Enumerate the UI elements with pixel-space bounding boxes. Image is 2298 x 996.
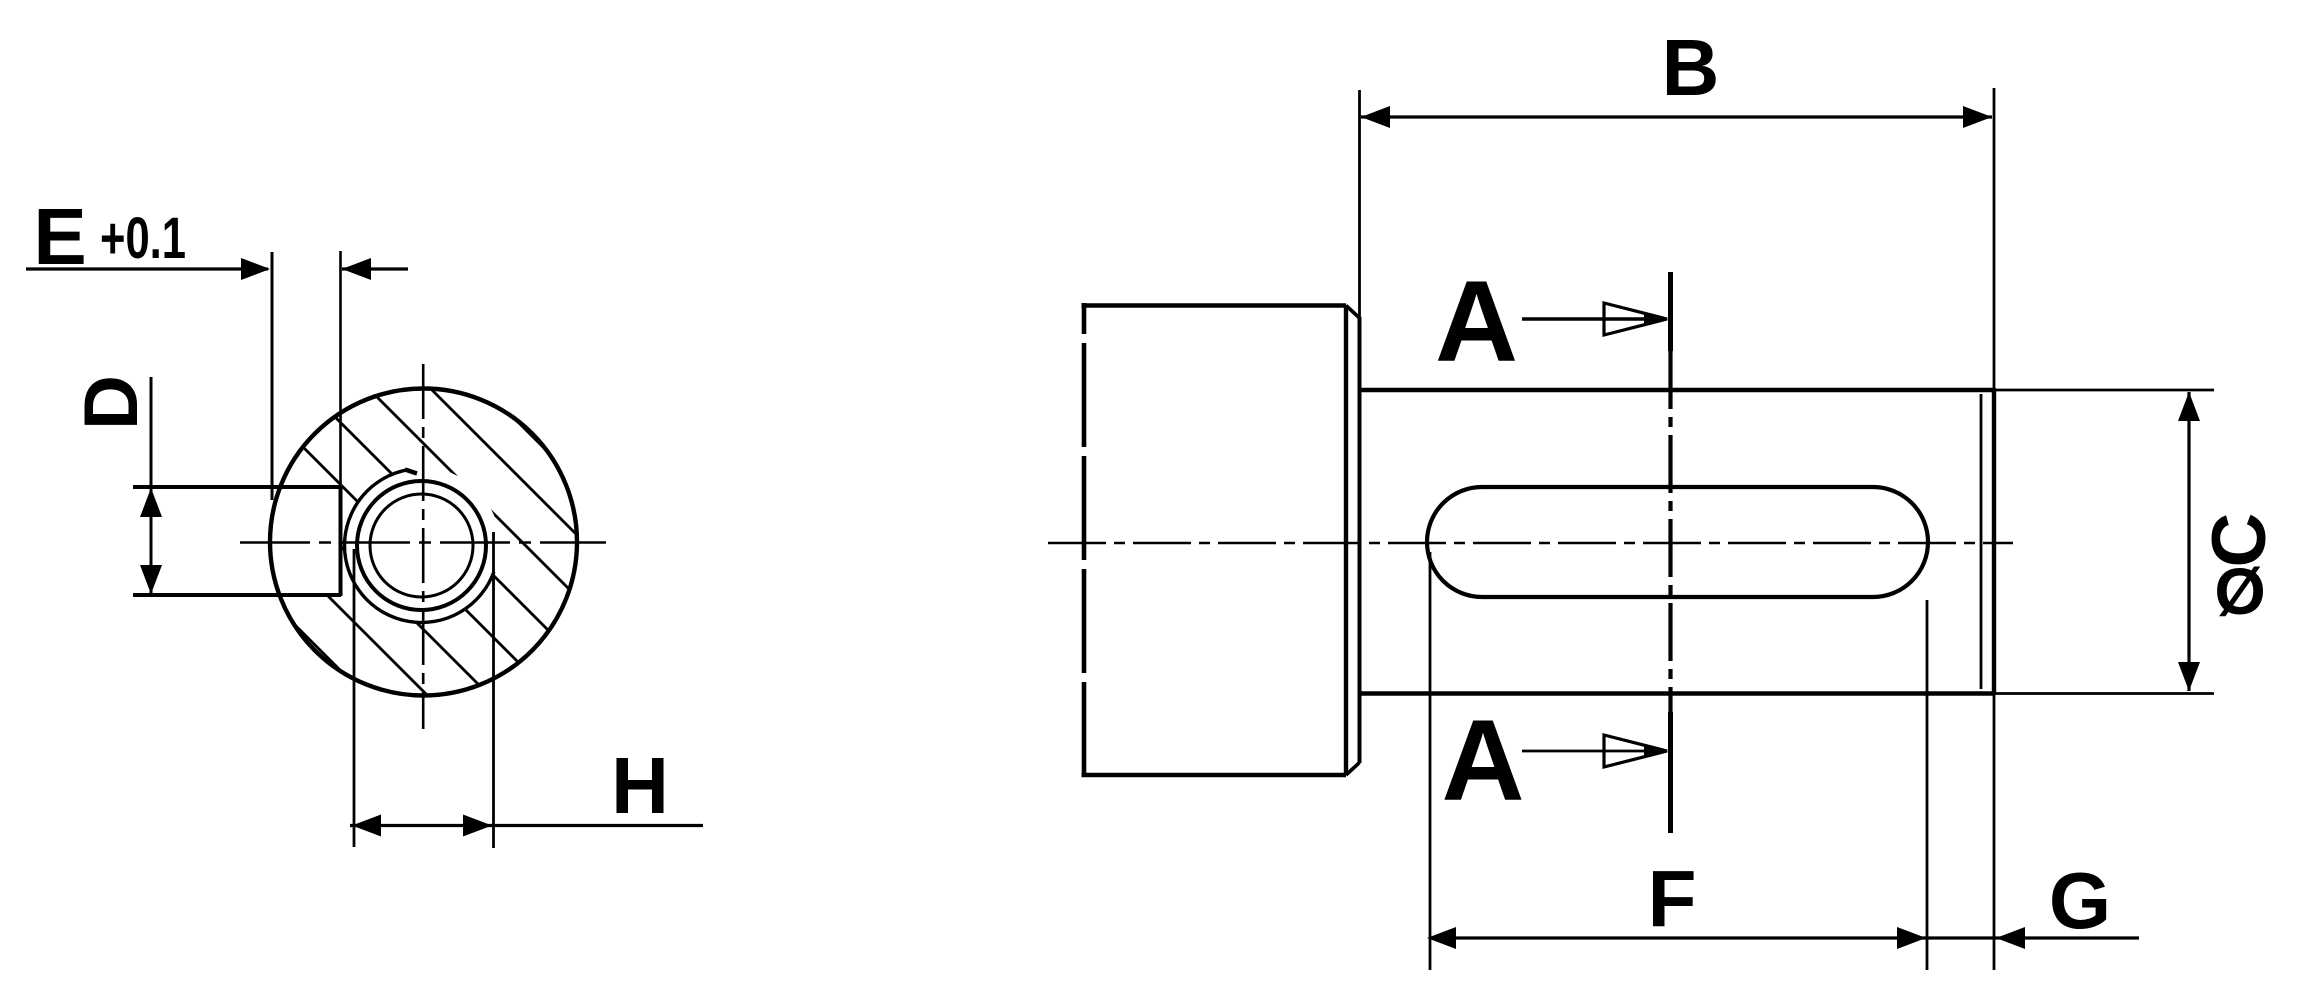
section arrow bottom head [1604, 735, 1667, 767]
dimension D arrow down [140, 565, 162, 594]
dimension E arrow left-pointing [342, 258, 371, 280]
hatching [255, 159, 600, 930]
section arrow bottom tip [1644, 744, 1667, 758]
dimension B arrow right-pointing [1963, 106, 1992, 128]
dimension H arrow left-pointing [352, 815, 381, 837]
H left extension line [353, 549, 356, 847]
svg-text:B: B [1662, 23, 1720, 112]
hole inner circle [370, 494, 473, 597]
keyway top edge [133, 485, 341, 489]
G right extension line [1993, 695, 1996, 970]
section arrow bottom tail [1522, 750, 1660, 753]
svg-text:Ø: Ø [2214, 554, 2265, 628]
slot (elongated hole) [1427, 487, 1928, 597]
svg-text:A: A [1435, 258, 1518, 386]
dimension F arrow right-pointing [1897, 927, 1926, 949]
head left edge (break line) [1082, 303, 1087, 777]
shaft bottom edge [1360, 691, 1995, 695]
head chamfer bottom corner [1346, 763, 1360, 776]
section arrow top head [1604, 303, 1667, 335]
dimension E arrow right-pointing [241, 258, 270, 280]
dimension C line [2187, 392, 2190, 691]
dimension F arrow left-pointing [1427, 927, 1456, 949]
dimension H arrow right-pointing [463, 815, 492, 837]
B left extension line [1358, 90, 1361, 317]
dimension B line [1361, 115, 1992, 118]
dimension E leader left [26, 267, 268, 270]
svg-text:A: A [1441, 697, 1524, 825]
dimension D arrow up [140, 488, 162, 517]
shaft section outer circle [270, 389, 577, 696]
dimension H line [350, 824, 703, 827]
E left extension line [271, 252, 274, 500]
C bottom extension line [1994, 692, 2214, 695]
shaft top edge [1360, 388, 1995, 392]
hole outline circle [357, 481, 486, 610]
svg-text:+0.1: +0.1 [100, 206, 186, 271]
C top extension line [1994, 389, 2214, 392]
shaft axis centerline [1048, 542, 2013, 545]
head top edge [1082, 303, 1347, 308]
B right extension line [1993, 88, 1996, 388]
keyway bottom edge [133, 593, 341, 597]
svg-text:G: G [2049, 856, 2111, 945]
svg-text:H: H [611, 741, 669, 830]
shaft end face [1992, 388, 1996, 695]
thread arc top hook [405, 470, 417, 474]
H right extension line [492, 532, 495, 848]
dimension B arrow left-pointing [1361, 106, 1390, 128]
section arrow top tip [1644, 312, 1667, 326]
head chamfer top corner [1346, 306, 1360, 319]
keyway floor [339, 486, 343, 596]
dimension D line [150, 377, 153, 594]
F left extension line [1429, 552, 1432, 970]
section line A-A bottom cap [1668, 712, 1673, 833]
dimension F G line [1429, 936, 2139, 939]
dimension C arrow up [2178, 392, 2200, 421]
section line A-A top cap [1668, 272, 1673, 351]
dimension G arrow left-pointing [1996, 927, 2025, 949]
left view horizontal centerline [240, 541, 606, 544]
section line A-A middle [1668, 351, 1672, 716]
svg-text:E: E [33, 192, 86, 281]
section arrow top tail [1522, 317, 1660, 321]
left view vertical centerline [422, 364, 425, 729]
shaft end chamfer line [1980, 394, 1983, 689]
head right face edge [1358, 317, 1362, 763]
E right extension line [339, 251, 342, 487]
dimension E leader right [342, 267, 408, 270]
F right extension line [1926, 600, 1929, 970]
thread major arc [345, 470, 494, 623]
svg-text:F: F [1648, 854, 1697, 943]
head bottom edge [1082, 773, 1347, 778]
head chamfer circle line [1344, 306, 1348, 776]
dimension C arrow down [2178, 662, 2200, 691]
svg-text:D: D [69, 375, 154, 430]
